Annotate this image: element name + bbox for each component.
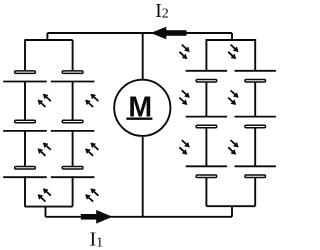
light arrows C1 xyxy=(179,45,189,59)
light arrows B3 xyxy=(85,189,98,202)
light arrows A1 xyxy=(38,94,51,107)
cell D2 xyxy=(235,117,276,128)
svg-text:I1: I1 xyxy=(90,230,104,250)
wire: left bank bottom bus xyxy=(25,206,73,208)
light arrows A3 xyxy=(38,189,51,202)
current arrow I2 (points left on top wire) xyxy=(151,27,187,39)
cell A3 xyxy=(3,167,47,178)
svg-text:I2: I2 xyxy=(155,1,169,22)
wire: left bank bottom connector xyxy=(45,207,47,217)
motor U1 circle xyxy=(114,80,170,136)
wire: right bank bottom bus xyxy=(206,205,255,207)
light arrows B2 xyxy=(85,143,98,156)
wire: right column C segments xyxy=(205,40,207,206)
light arrows C2 xyxy=(179,90,189,104)
wire: left column B segments xyxy=(72,40,74,207)
cell D1 xyxy=(235,71,276,82)
cell B3 xyxy=(51,167,95,178)
light arrows C3 xyxy=(179,140,189,154)
cell C3 xyxy=(186,166,227,177)
wire: left bank top bus xyxy=(24,39,72,41)
cell B1 xyxy=(51,71,95,82)
wire: left column A segments xyxy=(24,40,26,207)
cell C1 xyxy=(186,71,227,82)
wire: right bank top connector xyxy=(231,33,233,40)
light arrows D3 xyxy=(228,140,238,154)
light arrows D1 xyxy=(228,45,238,59)
cell A2 xyxy=(3,120,47,131)
wire: right bank bottom connector xyxy=(231,206,233,217)
light arrows D2 xyxy=(228,90,238,104)
wire: top main conductor xyxy=(47,32,232,34)
wire: right bank top bus xyxy=(206,39,257,41)
cell C2 xyxy=(186,117,227,128)
light arrows A2 xyxy=(38,143,51,156)
wire: motor top lead xyxy=(142,33,144,80)
cell B2 xyxy=(51,120,95,131)
cell D3 xyxy=(235,166,276,177)
wire: right column D segments xyxy=(254,40,256,206)
cell A1 xyxy=(3,71,47,82)
wire: left bank top connector xyxy=(46,33,48,40)
wire: bottom main conductor xyxy=(46,216,233,218)
light arrows B1 xyxy=(85,94,98,107)
current arrow I1 (points right on bottom wire) xyxy=(81,210,113,224)
wire: motor bottom lead xyxy=(142,136,144,217)
